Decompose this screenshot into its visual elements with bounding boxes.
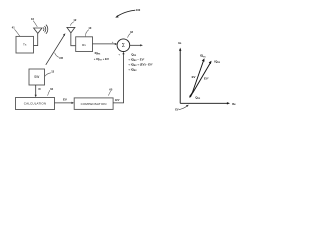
vector EV [191, 60, 203, 96]
svg-text:CR: CR [59, 56, 63, 60]
leader 18 to summer [128, 33, 131, 37]
svg-text:IQTX: IQTX [200, 54, 206, 59]
svg-text:+ IQRX + (EV) - EV': + IQRX + (EV) - EV' [128, 62, 153, 67]
svg-text:16: 16 [31, 17, 34, 21]
svg-text:18: 18 [130, 30, 133, 34]
svg-text:D: D [39, 87, 41, 91]
svg-text:EV: EV [192, 75, 196, 79]
leader 16 to antenna ANT1 [33, 21, 37, 27]
svg-text:Tx: Tx [23, 43, 27, 47]
summer circle S1 [117, 39, 130, 52]
block CALCULATION U4 [16, 98, 55, 110]
svg-text:10: 10 [88, 26, 91, 30]
svg-text:Re: Re [232, 102, 236, 106]
leader 13 to SW box [45, 73, 51, 77]
Re axis [180, 102, 228, 104]
svg-text:QRX: QRX [131, 52, 137, 57]
svg-text:QRX: QRX [195, 96, 201, 101]
leader 64 to calculation box [48, 90, 50, 96]
svg-text:+: + [118, 52, 120, 56]
Im axis [179, 50, 181, 104]
block Tx U1 [16, 36, 34, 53]
svg-text:100: 100 [136, 8, 141, 12]
svg-text:41: 41 [12, 26, 15, 30]
svg-text:IQRX: IQRX [95, 51, 101, 56]
svg-text:+ IQRX: + IQRX [128, 67, 137, 72]
svg-text:13: 13 [51, 70, 54, 74]
svg-text:EV: EV [63, 98, 67, 102]
residual vector Qrx [190, 93, 193, 97]
vector EV' [193, 62, 211, 93]
wire compensation to summer (EV') [113, 53, 123, 103]
svg-text:CALCULATION: CALCULATION [24, 102, 46, 106]
leader EV to origin [179, 106, 187, 110]
svg-text:64: 64 [50, 87, 53, 91]
svg-text:SW: SW [34, 75, 39, 79]
leader 41 to Tx box [15, 29, 20, 36]
svg-text:+ IQRX − EV': + IQRX − EV' [128, 57, 144, 62]
svg-text:EV': EV' [204, 76, 209, 80]
svg-text:+ IQTX + EV: + IQTX + EV [94, 57, 109, 62]
leader 10 to Rx box [85, 30, 89, 37]
block COMPENSATION U5 [74, 98, 113, 110]
crosstalk wave arrow to ANT2 [46, 35, 65, 65]
antenna ANT1 (Tx) [34, 28, 42, 46]
leader CR to wave arrow [55, 53, 59, 58]
leader 12 to antenna ANT2 [70, 22, 74, 26]
svg-text:Rx: Rx [82, 43, 86, 47]
svg-text:EV': EV' [115, 98, 120, 102]
svg-text:IQRX: IQRX [214, 59, 220, 64]
leader 65 to compensation box [108, 91, 110, 96]
radiated waves from ANT1 [43, 25, 48, 34]
block Rx U2 [76, 37, 93, 52]
antenna ANT2 (Rx) [67, 27, 76, 45]
svg-text:EV: EV [175, 108, 179, 112]
svg-text:COMPENSATION: COMPENSATION [81, 102, 107, 106]
svg-text:Σ: Σ [122, 43, 125, 49]
output arrow of summer [130, 44, 141, 46]
curved arrow 100 [117, 10, 135, 16]
wire calculation to compensation [55, 102, 73, 104]
svg-text:+: + [112, 40, 114, 44]
svg-text:Im: Im [178, 41, 182, 45]
block SW U3 [29, 69, 45, 85]
wire Rx to summer [93, 43, 117, 45]
svg-text:65: 65 [109, 88, 112, 92]
wire SW to calculation [35, 85, 37, 96]
